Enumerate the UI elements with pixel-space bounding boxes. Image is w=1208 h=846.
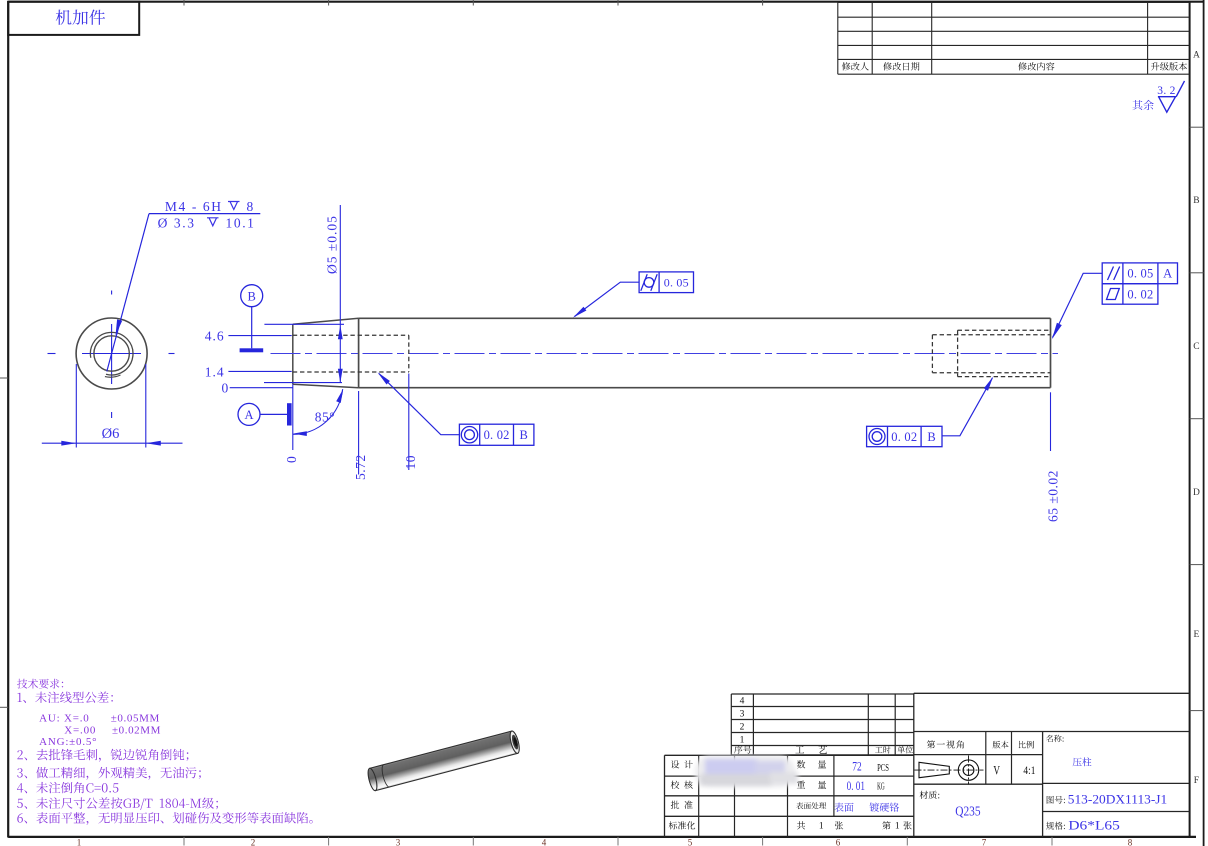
surface treat value 表面 [834,803,853,812]
label 量2 [818,781,826,789]
revision header 修改日期 [883,62,919,70]
svg-text:6: 6 [836,837,841,846]
side view body bottom [359,387,1051,389]
right hidden pilot end [931,335,933,373]
dim Ø5 line [339,205,341,383]
left hidden hole bottom [293,371,409,373]
svg-text:4.6: 4.6 [205,329,225,344]
svg-text:1.4: 1.4 [205,364,225,379]
dim Ø5 extension top [264,323,344,325]
sheet frame top line [8,1,1203,3]
svg-text:A: A [1163,267,1172,281]
revision header 修改内容 [1018,62,1054,70]
surface finish symbol [1158,81,1185,112]
sheet frame inner right line [1189,1,1191,837]
datum B target bar [240,348,264,352]
svg-text:0. 02: 0. 02 [891,430,917,444]
label 规格 [1046,822,1065,830]
svg-text:M4 - 6H: M4 - 6H [165,199,223,214]
right hidden pilot top [932,334,1050,336]
svg-text:Q235: Q235 [955,804,981,819]
svg-text:X=.00: X=.00 [64,724,96,736]
svg-text:5.72: 5.72 [353,454,368,480]
label 校核 [671,781,693,789]
label 张2 [903,821,911,829]
label 标准化 [669,821,696,829]
svg-text:7: 7 [982,837,987,846]
svg-text:D: D [1193,488,1200,498]
svg-text:A: A [244,408,253,422]
label 名称 [1046,735,1064,742]
side view body top [359,317,1051,319]
ordinate 0 line [230,387,293,389]
end view pilot hole circle [94,336,129,371]
label 表面处理 [796,802,826,809]
side view right face [1050,318,1052,387]
revision header 升级版本 [1151,62,1187,71]
label 版本 [993,741,1009,749]
right margin zone dividers [1190,126,1204,128]
parts header 艺 [819,745,828,753]
surface finish 其余 [1133,100,1154,110]
shaft centerline [271,353,1059,355]
projection symbol cone [919,762,949,777]
left margin zone ticks [0,377,8,379]
dimension Ø6 extension lines [75,364,77,448]
datum A circle [238,403,260,425]
side view taper junction [358,318,360,387]
ordinate 4.6 line [228,335,291,337]
label 第一视角 [927,740,964,748]
projection symbol cone centerline [915,769,954,771]
revision table lines [838,16,1190,18]
svg-text:KG: KG [877,782,885,793]
svg-text:Ø5 ±0.05: Ø5 ±0.05 [325,215,340,274]
side view left face [292,324,294,384]
fcf concentricity-left leader [379,374,459,435]
svg-text:3: 3 [396,837,401,846]
label 共 [797,821,805,829]
svg-text:±0.05MM: ±0.05MM [111,712,160,724]
right section lines [914,731,1190,733]
bottom margin zone ticks [183,837,185,846]
angle 85 arc [293,389,343,434]
label 第 [882,821,890,829]
svg-text:10: 10 [403,455,418,470]
svg-text:0. 05: 0. 05 [664,276,689,290]
svg-text:4: 4 [740,697,745,707]
fcf parallelism leader [1053,273,1103,337]
svg-text:513-20DX1113-J1: 513-20DX1113-J1 [1068,792,1167,806]
side view taper bottom [293,384,359,387]
svg-text:8: 8 [247,199,254,214]
svg-text:B: B [520,428,528,442]
end view thread arc [90,332,133,375]
fcf concentricity-right frame [867,426,942,446]
right hidden thread top [958,329,1051,331]
end view thread runout arc [105,375,121,377]
svg-text:AU: X=.0: AU: X=.0 [39,712,90,724]
svg-text:C: C [1193,342,1199,352]
end view outer circle [76,318,147,389]
parts header 工 [795,746,804,753]
ordinate 1.4 line [228,370,291,372]
svg-text:2: 2 [740,723,745,733]
svg-text:Ø6: Ø6 [102,426,120,442]
svg-text:0. 05: 0. 05 [1127,267,1153,281]
svg-text:±0.02MM: ±0.02MM [112,724,161,736]
svg-text:A: A [1193,51,1200,61]
parts list table lines [731,693,914,695]
end view centerline vertical [111,291,113,295]
title block top line right section [914,692,1190,694]
part-type label box [8,2,139,35]
tech req line5 [17,749,188,762]
svg-text:5: 5 [688,837,693,846]
svg-text:85°: 85° [315,410,335,425]
svg-text:1: 1 [740,736,745,746]
fcf cylindricity leader [575,282,640,316]
svg-text:Ø 3.3: Ø 3.3 [158,215,196,230]
svg-text:V: V [993,763,1000,777]
label 设计 [671,760,693,768]
left hidden hole top [293,334,409,336]
svg-text:4:1: 4:1 [1023,765,1035,777]
sheet frame bottom line [8,836,1196,838]
projection symbol crosshair [954,769,984,771]
svg-text:0. 01: 0. 01 [847,779,865,793]
left hidden hole end [408,335,410,372]
svg-text:D6*L65: D6*L65 [1068,818,1119,832]
fcf flatness frame [1102,284,1158,305]
label 比例 [1019,741,1034,749]
datum B circle [241,285,263,307]
parts header 单位 [898,746,913,753]
side view taper top [293,318,359,324]
label 数 [797,760,806,768]
svg-text:B: B [927,430,935,444]
top margin zone ticks [183,0,185,6]
part name 压柱 [1073,757,1092,766]
thread callout leader [107,214,149,372]
sheet frame left line [7,1,9,838]
svg-text:3: 3 [740,710,745,720]
right hidden thread end [957,330,959,376]
right hidden pilot bottom [932,372,1050,374]
fcf parallelism frame [1102,263,1177,284]
tech req line1 [18,692,113,704]
svg-text:1: 1 [895,822,900,832]
tech req line7 [17,782,118,793]
svg-text:1: 1 [77,837,82,846]
revision header 修改人 [842,62,869,70]
svg-text:F: F [1194,776,1199,786]
title block left/vertical lines [664,755,666,837]
ordinate 10 ext line [408,374,410,471]
end view centerline horizontal [48,353,56,355]
tech req line6 [17,767,201,780]
svg-text:10.1: 10.1 [226,215,256,230]
parts header 序号 [734,745,751,753]
projection symbol circles [958,760,978,780]
tech req line0 [17,679,63,689]
svg-text:4: 4 [542,837,547,846]
svg-text:0. 02: 0. 02 [484,428,510,442]
svg-text:8: 8 [1128,837,1133,846]
label 图号 [1047,796,1065,804]
angle 85 vertical leg [292,384,294,450]
svg-text:3. 2: 3. 2 [1157,85,1175,97]
tech req line9 [17,812,312,825]
depth symbol line1 [228,202,240,210]
depth symbol line2 [207,218,219,226]
datum A target bar [287,403,292,425]
svg-text:0: 0 [222,380,229,395]
fcf cylindricity frame [639,272,693,293]
sheet outer right line [1203,0,1205,846]
label 材质 [920,791,940,799]
svg-text:65 ±0.02: 65 ±0.02 [1046,470,1061,522]
svg-text:72: 72 [852,760,861,774]
title block signature rows [665,754,914,756]
dim Ø5 extension bottom [264,382,342,384]
ordinate 5.72 ext line [358,391,360,475]
dim 65 ext line [1050,392,1052,451]
label 批准 [671,801,693,809]
svg-text:2: 2 [251,837,256,846]
svg-text:0. 02: 0. 02 [1127,287,1153,301]
parts header 工时 [875,746,891,753]
fcf concentricity-left frame [459,424,534,445]
label 重 [797,781,805,789]
fcf concentricity-right leader [942,378,992,436]
svg-text:1: 1 [819,822,824,832]
svg-text:B: B [248,290,256,304]
svg-text:B: B [1193,196,1199,206]
label 张1 [835,821,843,829]
blurred signature [695,756,798,788]
datum B stem [251,307,253,349]
svg-text:PCS: PCS [877,763,889,774]
svg-text:0: 0 [284,456,299,463]
label 机加件 [56,10,105,25]
label 量1 [818,760,826,768]
tech req line8 [17,797,218,810]
svg-text:E: E [1193,630,1199,640]
datum A stem [260,413,287,415]
dimension Ø6 line [42,442,183,444]
svg-text:ANG:±0.5°: ANG:±0.5° [39,736,97,748]
surface treat value 镀硬铬 [870,803,899,812]
right hidden thread bottom [958,376,1051,378]
